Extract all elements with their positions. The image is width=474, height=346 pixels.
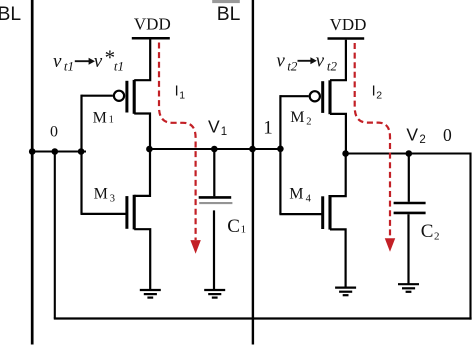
C1 top lead xyxy=(213,149,215,196)
svg-text:VDD: VDD xyxy=(330,15,367,34)
svg-text:M: M xyxy=(94,185,108,202)
svg-text:C: C xyxy=(227,216,240,237)
BLbar overline xyxy=(212,0,240,3)
transistor M4 (NMOS) xyxy=(279,153,345,287)
junction: M1/M3 gate column xyxy=(78,148,85,155)
svg-text:v: v xyxy=(94,51,103,72)
svg-text:1: 1 xyxy=(263,118,273,139)
svg-text:t1: t1 xyxy=(114,59,124,74)
svg-text:0: 0 xyxy=(443,125,452,145)
C2 top plate xyxy=(394,202,426,205)
M4 channel bar xyxy=(328,195,331,230)
svg-text:1: 1 xyxy=(221,126,227,138)
wire: left gate-net bus segment xyxy=(31,150,86,152)
C1 bottom lead xyxy=(213,210,215,289)
transistor M3 (NMOS) xyxy=(81,150,151,290)
svg-text:M: M xyxy=(290,109,304,126)
VDD supply bar (left) xyxy=(132,37,170,40)
M1 gate lead xyxy=(82,95,113,97)
M4 source jog down to ground xyxy=(330,229,346,287)
svg-text:BL: BL xyxy=(217,4,241,25)
svg-text:1: 1 xyxy=(241,224,247,236)
wire: V1 bus segment xyxy=(147,148,283,150)
junction: V2 node at M2/M4 drains xyxy=(342,150,349,157)
ground (C1) xyxy=(204,290,225,298)
junction: bottom-rail drop xyxy=(52,148,59,155)
svg-text:VDD: VDD xyxy=(134,15,171,34)
svg-text:2: 2 xyxy=(434,231,440,243)
bit line BL (left vertical) xyxy=(31,0,34,345)
svg-text:1: 1 xyxy=(109,115,114,126)
svg-text:0: 0 xyxy=(50,124,58,141)
capacitor C2 xyxy=(394,154,426,285)
wire: bottom rail xyxy=(54,317,472,319)
wire: VDD to M2 source xyxy=(330,40,346,80)
svg-text:I: I xyxy=(372,84,376,100)
C1 bottom plate (gray) xyxy=(199,202,232,204)
I1 arrowhead xyxy=(191,241,200,253)
svg-text:t2: t2 xyxy=(327,58,338,73)
svg-text:V: V xyxy=(208,117,220,137)
ground (C2) xyxy=(398,284,419,292)
junction: C2 tap on V2 xyxy=(406,150,413,157)
junction: BLbar / V1 xyxy=(249,146,256,153)
svg-text:3: 3 xyxy=(110,194,115,205)
M3 gate lead xyxy=(81,213,127,215)
svg-text:v: v xyxy=(316,51,325,72)
threshold shift label vt2 xyxy=(276,51,337,74)
C2 bottom lead xyxy=(407,214,409,284)
M4 drain jog up to V2 xyxy=(330,153,346,196)
junction: V1 node at M1/M3 drains xyxy=(146,146,153,153)
M3 source jog down to ground xyxy=(134,229,150,289)
M2 gate lead xyxy=(280,95,308,97)
C2 bottom plate xyxy=(394,212,426,215)
svg-text:t2: t2 xyxy=(287,58,298,73)
M2 gate bar xyxy=(321,81,324,113)
M1 drain jog xyxy=(134,114,150,150)
wire: right rail up to V2 bus xyxy=(469,153,471,320)
M3 channel bar xyxy=(133,195,136,230)
junction: BL / gate-net xyxy=(29,148,36,155)
wire: left gate column (M1/M3 gates) xyxy=(80,95,82,214)
svg-text:M: M xyxy=(289,185,303,202)
svg-text:1: 1 xyxy=(179,90,185,102)
threshold shift label vt1 xyxy=(53,46,124,74)
svg-text:2: 2 xyxy=(419,134,425,146)
transistor M2 (PMOS) xyxy=(280,80,346,154)
wire: VDD to M1 source xyxy=(134,40,150,81)
svg-text:2: 2 xyxy=(376,90,382,102)
complementary bit line BLbar (middle vertical) xyxy=(252,0,254,345)
svg-text:t1: t1 xyxy=(64,59,74,74)
svg-text:2: 2 xyxy=(306,116,311,127)
I2 arrowhead xyxy=(386,239,395,251)
C2 top lead xyxy=(408,154,410,202)
svg-text:BL: BL xyxy=(0,4,21,25)
M2 channel bar xyxy=(328,80,331,114)
M3 gate bar xyxy=(125,196,128,229)
svg-text:I: I xyxy=(175,84,179,100)
junction: C1 tap on V1 xyxy=(211,146,218,153)
M1 gate bubble xyxy=(114,91,124,101)
svg-text:4: 4 xyxy=(306,194,312,205)
wire: V2 bus segment xyxy=(343,152,472,154)
ground (M4 source) xyxy=(335,288,356,296)
transistor M1 (PMOS) xyxy=(82,80,151,149)
M3 drain jog up to V1 xyxy=(134,150,150,196)
M1 gate bar xyxy=(125,81,128,113)
svg-text:M: M xyxy=(93,110,107,127)
svg-text:v: v xyxy=(53,51,62,72)
svg-text:v: v xyxy=(276,51,285,72)
C1 top plate xyxy=(199,196,232,199)
M2 gate bubble xyxy=(310,91,320,101)
wire: left drop to bottom rail xyxy=(54,152,56,319)
VDD supply bar (right) xyxy=(328,37,365,40)
M1 channel bar xyxy=(133,80,136,114)
junction: M2/M4 gate column xyxy=(277,146,284,153)
svg-text:C: C xyxy=(421,221,434,242)
current I2 dashed arrow xyxy=(355,43,390,238)
M4 gate lead xyxy=(279,213,322,215)
capacitor C1 xyxy=(199,149,233,290)
current I1 dashed arrow xyxy=(159,43,196,241)
wire: right gate column (M2/M4 gates) xyxy=(279,95,281,214)
ground (M3 source) xyxy=(140,290,161,298)
M4 gate bar xyxy=(321,196,324,229)
svg-text:V: V xyxy=(406,124,418,144)
M2 drain jog xyxy=(330,114,346,154)
